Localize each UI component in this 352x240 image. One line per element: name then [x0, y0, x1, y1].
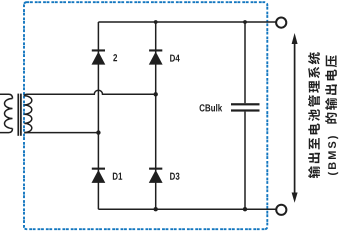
diode D2 triangle: [92, 52, 106, 65]
transformer T1 primary bottom lead: [0, 129, 13, 133]
diode D3 triangle: [149, 170, 163, 183]
label D3: [170, 173, 175, 180]
transformer T1 primary winding: [5, 99, 13, 129]
diode D4 bar: [149, 49, 162, 51]
dashed converter boundary box: [24, 2, 267, 229]
diode D1 bar: [92, 168, 105, 170]
transformer T1 secondary winding: [24, 96, 32, 133]
label 2 (D2): [113, 54, 117, 61]
wire bottom rail: [98, 208, 276, 210]
diode D2 bar: [92, 49, 105, 51]
capacitor CBulk plates: [231, 103, 260, 111]
double arrow output voltage: [292, 33, 298, 203]
transformer T1 core: [18, 94, 21, 136]
label CBulk: [200, 104, 205, 111]
transformer T1 primary top lead: [0, 94, 13, 98]
wire secondary bottom lead: [24, 132, 98, 134]
wire branch2 vertical: [155, 22, 157, 209]
wire secondary top lead with hop over branch1: [24, 90, 155, 96]
output terminal top: [276, 18, 286, 28]
label chinese line2 的输出电压: [325, 113, 337, 124]
diode D4 triangle: [149, 52, 163, 65]
label chinese line1 输出至电池管理系统: [308, 166, 320, 178]
output terminal bottom: [276, 205, 286, 215]
label latin (BMS): [328, 172, 338, 175]
wire branch1 vertical: [97, 22, 99, 209]
label D1: [113, 173, 118, 180]
wire branch3 vertical bottom: [244, 112, 246, 210]
diode D3 bar: [149, 168, 162, 170]
wire top rail: [98, 21, 276, 23]
wire branch3 vertical top: [244, 22, 246, 103]
diode D1 triangle: [92, 170, 106, 183]
label D4: [170, 55, 175, 62]
